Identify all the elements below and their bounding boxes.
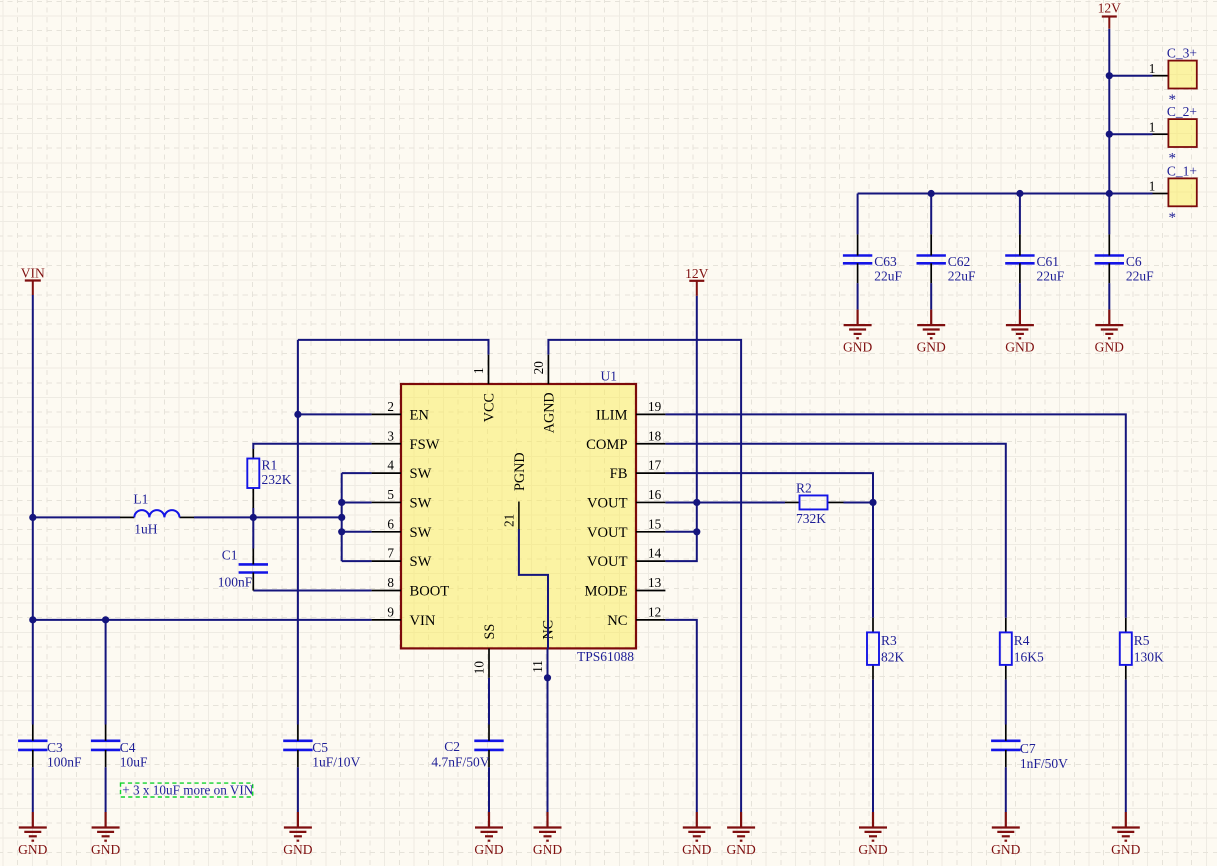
junction [928, 190, 935, 197]
svg-text:9: 9 [387, 604, 394, 619]
svg-text:C6: C6 [1126, 254, 1142, 269]
svg-text:VIN: VIN [410, 613, 436, 629]
svg-text:GND: GND [1111, 842, 1140, 857]
wire C61 branch [1019, 194, 1021, 235]
wire EN top bus to VCC pin 1 [298, 340, 489, 355]
svg-text:SW: SW [410, 466, 432, 482]
wire C63 to GND [857, 283, 859, 310]
svg-text:MODE: MODE [585, 584, 628, 600]
pin 9 VIN [372, 604, 436, 629]
note text frame [121, 783, 254, 798]
svg-text:R3: R3 [881, 633, 897, 648]
svg-text:16: 16 [648, 487, 662, 502]
capacitor C4 [91, 725, 148, 770]
svg-text:C61: C61 [1037, 254, 1060, 269]
wire C5 to GND [297, 767, 299, 812]
svg-text:C2: C2 [444, 739, 460, 754]
junction [1106, 72, 1113, 79]
svg-text:VCC: VCC [482, 393, 498, 422]
wire C63 branch [857, 194, 859, 235]
svg-text:12V: 12V [1098, 1, 1122, 16]
ground [475, 812, 503, 841]
wire SW bus to pin 6 [342, 531, 372, 533]
wire C4 branch [105, 620, 107, 725]
capacitor C7 [991, 725, 1068, 772]
pin 11 NC [530, 620, 557, 678]
IC U1 TPS61088 [401, 384, 636, 648]
ground [917, 310, 945, 339]
svg-text:C1: C1 [222, 548, 238, 563]
wire connector C_2+ [1109, 133, 1152, 135]
svg-text:U1: U1 [601, 369, 618, 384]
svg-text:GND: GND [474, 842, 503, 857]
wire SW bus to pin 4 [342, 472, 372, 474]
pin 21 PGND [501, 452, 548, 648]
wire C6 to GND [1108, 283, 1110, 310]
ground [727, 812, 755, 841]
ground [1112, 812, 1140, 841]
wire AGND pin 20 to right vertical [548, 340, 741, 812]
svg-text:GND: GND [91, 842, 120, 857]
pin 19 ILIM [596, 399, 666, 424]
svg-text:SS: SS [482, 624, 498, 640]
wire EN vertical to C5 [297, 340, 299, 725]
svg-text:8: 8 [387, 575, 394, 590]
svg-text:NC: NC [607, 613, 627, 629]
pin 5 SW [372, 487, 432, 512]
wire ILIM pin 19 down to R5 [665, 414, 1125, 617]
wire VIN to L1 [33, 516, 120, 518]
ground [92, 812, 120, 841]
svg-text:12V: 12V [685, 266, 709, 281]
svg-text:11: 11 [530, 660, 545, 673]
junction [544, 674, 551, 681]
svg-text:EN: EN [410, 407, 430, 423]
svg-text:20: 20 [531, 361, 546, 375]
svg-text:COMP: COMP [586, 437, 627, 453]
svg-text:GND: GND [1005, 340, 1034, 355]
junction [338, 528, 345, 535]
wire C3 branch [32, 767, 34, 812]
wire SS pin 10 to C2 [488, 678, 490, 725]
wire VOUT pin 16 to R2 [665, 501, 785, 503]
wire VIN vertical [32, 295, 34, 725]
svg-text:GND: GND [843, 340, 872, 355]
svg-text:GND: GND [726, 842, 755, 857]
junction [250, 514, 257, 521]
svg-text:C_2+: C_2+ [1167, 104, 1197, 119]
svg-text:22uF: 22uF [1126, 269, 1154, 284]
junction [869, 499, 876, 506]
resistor R2 [785, 480, 844, 526]
svg-text:+ 3 x 10uF more on VIN: + 3 x 10uF more on VIN [122, 783, 253, 798]
junction [338, 499, 345, 506]
svg-text:6: 6 [387, 516, 394, 531]
svg-text:GND: GND [917, 340, 946, 355]
svg-text:22uF: 22uF [948, 269, 976, 284]
pin 15 VOUT [587, 516, 665, 541]
ground [1006, 310, 1034, 339]
connector C_1+ [1149, 163, 1197, 226]
wire 12V vertical to VOUT pins [665, 296, 696, 561]
wire COMP pin 18 down to R4 [665, 444, 1005, 618]
svg-text:17: 17 [648, 458, 662, 473]
pin 20 AGND [531, 355, 558, 434]
power port 12V (top right) [1098, 1, 1122, 29]
junction [29, 616, 36, 623]
svg-text:4.7nF/50V: 4.7nF/50V [431, 755, 489, 770]
svg-text:18: 18 [648, 428, 662, 443]
svg-text:GND: GND [991, 842, 1020, 857]
wire C61 to GND [1019, 283, 1021, 310]
ground [19, 812, 47, 841]
pin 14 VOUT [587, 546, 665, 571]
svg-text:BOOT: BOOT [410, 584, 450, 600]
ground [1095, 310, 1123, 339]
svg-text:22uF: 22uF [874, 269, 902, 284]
svg-text:ILIM: ILIM [596, 407, 628, 423]
wire C4 to GND [105, 767, 107, 812]
wire VIN row to pin 9 [33, 619, 372, 621]
svg-text:GND: GND [1095, 340, 1124, 355]
ground [534, 812, 562, 841]
svg-text:VOUT: VOUT [587, 525, 628, 541]
pin 17 FB [610, 458, 666, 483]
svg-text:15: 15 [648, 516, 662, 531]
wire C1 to BOOT pin 8 [253, 590, 371, 592]
svg-text:4: 4 [387, 458, 394, 473]
junction [294, 411, 301, 418]
wire 12V top vertical [1108, 29, 1110, 194]
svg-text:R5: R5 [1134, 633, 1150, 648]
svg-text:VOUT: VOUT [587, 554, 628, 570]
wire connector C_3+ [1109, 75, 1152, 77]
wire C2 to GND [488, 767, 490, 812]
svg-text:14: 14 [648, 546, 662, 561]
svg-text:1: 1 [1149, 179, 1156, 194]
junction [1016, 190, 1023, 197]
svg-text:13: 13 [648, 575, 662, 590]
pin 10 SS [472, 624, 499, 678]
pin 4 SW [372, 458, 432, 483]
capacitor C63 [843, 234, 903, 283]
svg-text:C3: C3 [47, 740, 63, 755]
svg-text:1: 1 [1149, 61, 1156, 76]
svg-text:82K: 82K [881, 650, 905, 665]
pin 16 VOUT [587, 487, 665, 512]
wire SW bus to pin 5 [342, 501, 372, 503]
wire R4 to C7 [1005, 680, 1007, 725]
svg-text:GND: GND [18, 842, 47, 857]
svg-text:VIN: VIN [21, 266, 45, 281]
svg-text:C5: C5 [312, 740, 328, 755]
resistor R3 [867, 618, 905, 680]
ground [683, 812, 711, 841]
junction [693, 499, 700, 506]
svg-text:GND: GND [533, 842, 562, 857]
svg-text:C63: C63 [874, 254, 897, 269]
inductor L1 [120, 492, 194, 537]
pin 1 VCC [471, 355, 498, 423]
connector C_3+ [1149, 46, 1197, 109]
svg-text:R1: R1 [262, 458, 278, 473]
svg-text:TPS61088: TPS61088 [577, 649, 634, 664]
pin 6 SW [372, 516, 432, 541]
svg-text:1uF/10V: 1uF/10V [312, 755, 360, 770]
svg-text:732K: 732K [796, 511, 826, 526]
wire FSW to R1 [253, 444, 371, 449]
svg-text:SW: SW [410, 495, 432, 511]
ground [859, 812, 887, 841]
svg-text:C62: C62 [948, 254, 971, 269]
pin 12 NC [607, 604, 665, 629]
svg-text:C_3+: C_3+ [1167, 46, 1197, 61]
svg-text:PGND: PGND [512, 452, 528, 491]
svg-text:*: * [1169, 210, 1177, 226]
junction [693, 528, 700, 535]
capacitor C2 [431, 725, 503, 770]
svg-text:VOUT: VOUT [587, 495, 628, 511]
wire pin 15 stub [665, 531, 696, 533]
wire SW node [194, 516, 342, 518]
svg-text:1: 1 [471, 367, 486, 374]
svg-text:C_1+: C_1+ [1167, 163, 1197, 178]
capacitor C62 [917, 234, 977, 283]
svg-text:1nF/50V: 1nF/50V [1020, 756, 1068, 771]
pin 8 BOOT [372, 575, 450, 600]
wire R5 to GND [1125, 680, 1127, 812]
capacitor C6 [1095, 234, 1155, 283]
wire top capacitor bus [858, 193, 1153, 195]
pin 18 COMP [586, 428, 665, 453]
svg-text:GND: GND [858, 842, 887, 857]
svg-text:19: 19 [648, 399, 662, 414]
resistor R4 [1000, 618, 1044, 680]
resistor R1 [247, 449, 291, 508]
wire R1 bottom to SW node [252, 508, 254, 517]
svg-text:1: 1 [1149, 119, 1156, 134]
capacitor C1 [218, 548, 268, 591]
pin 3 FSW [372, 428, 440, 453]
wire NC pin 12 to GND [665, 620, 696, 812]
svg-text:16K5: 16K5 [1014, 650, 1044, 665]
pin 2 EN [372, 399, 430, 424]
wire C62 to GND [930, 283, 932, 310]
svg-text:GND: GND [283, 842, 312, 857]
svg-text:2: 2 [387, 399, 394, 414]
wire C62 branch [930, 194, 932, 235]
wire R3 bottom to GND [872, 680, 874, 812]
svg-text:FB: FB [610, 466, 628, 482]
wire R2 right to FB node [844, 501, 874, 503]
pin 13 MODE [585, 575, 666, 600]
ground [284, 812, 312, 841]
capacitor C5 [283, 725, 360, 770]
svg-text:SW: SW [410, 554, 432, 570]
svg-text:AGND: AGND [541, 392, 557, 433]
svg-text:10: 10 [472, 661, 487, 675]
wire SW bus vertical [341, 473, 343, 561]
connector C_2+ [1149, 104, 1197, 167]
svg-text:100nF: 100nF [47, 755, 82, 770]
wire C7 to GND [1005, 767, 1007, 812]
svg-text:7: 7 [387, 546, 394, 561]
capacitor C61 [1005, 234, 1065, 283]
junction [338, 514, 345, 521]
svg-text:C7: C7 [1020, 741, 1036, 756]
ground [992, 812, 1020, 841]
svg-text:C4: C4 [120, 740, 136, 755]
svg-text:100nF: 100nF [218, 575, 253, 590]
svg-text:3: 3 [387, 428, 394, 443]
svg-text:10uF: 10uF [120, 755, 148, 770]
power port VIN [21, 266, 45, 295]
capacitor C3 [18, 725, 82, 770]
svg-text:12: 12 [648, 604, 661, 619]
wire C6 branch [1108, 194, 1110, 235]
wire SW node to C1 [252, 517, 254, 548]
junction [1106, 131, 1113, 138]
svg-text:1uH: 1uH [134, 522, 158, 537]
wire EN branch to pin 2 [298, 413, 372, 415]
ground [844, 310, 872, 339]
junction [1106, 190, 1113, 197]
wire pin 11 to GND [547, 648, 549, 812]
svg-text:FSW: FSW [410, 437, 440, 453]
resistor R5 [1120, 618, 1164, 680]
svg-text:5: 5 [387, 487, 394, 502]
svg-text:232K: 232K [262, 472, 292, 487]
junction [29, 514, 36, 521]
svg-text:22uF: 22uF [1037, 269, 1065, 284]
svg-text:R2: R2 [796, 480, 812, 495]
wire FB pin 17 down to R3 [665, 473, 873, 618]
svg-text:21: 21 [501, 514, 516, 527]
svg-text:L1: L1 [133, 492, 148, 507]
wire SW bus to pin 7 [342, 560, 372, 562]
svg-text:130K: 130K [1134, 650, 1164, 665]
pin 7 SW [372, 546, 432, 571]
svg-text:R4: R4 [1014, 633, 1030, 648]
svg-text:SW: SW [410, 525, 432, 541]
junction [102, 616, 109, 623]
svg-text:GND: GND [682, 842, 711, 857]
power port 12V (center) [685, 266, 709, 296]
